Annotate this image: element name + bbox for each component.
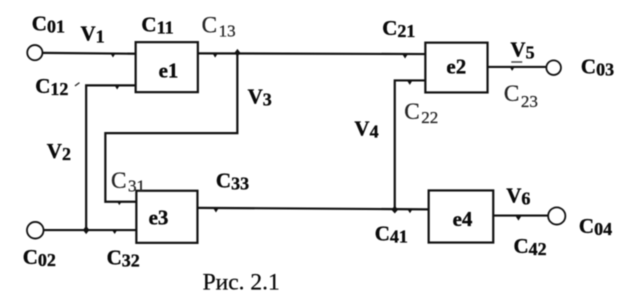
svg-text:e1: e1 — [159, 58, 179, 82]
svg-text:e4: e4 — [453, 207, 473, 231]
svg-text:Рис. 2.1: Рис. 2.1 — [203, 270, 280, 296]
svg-text:e2: e2 — [446, 55, 466, 79]
svg-text:e3: e3 — [149, 206, 169, 230]
